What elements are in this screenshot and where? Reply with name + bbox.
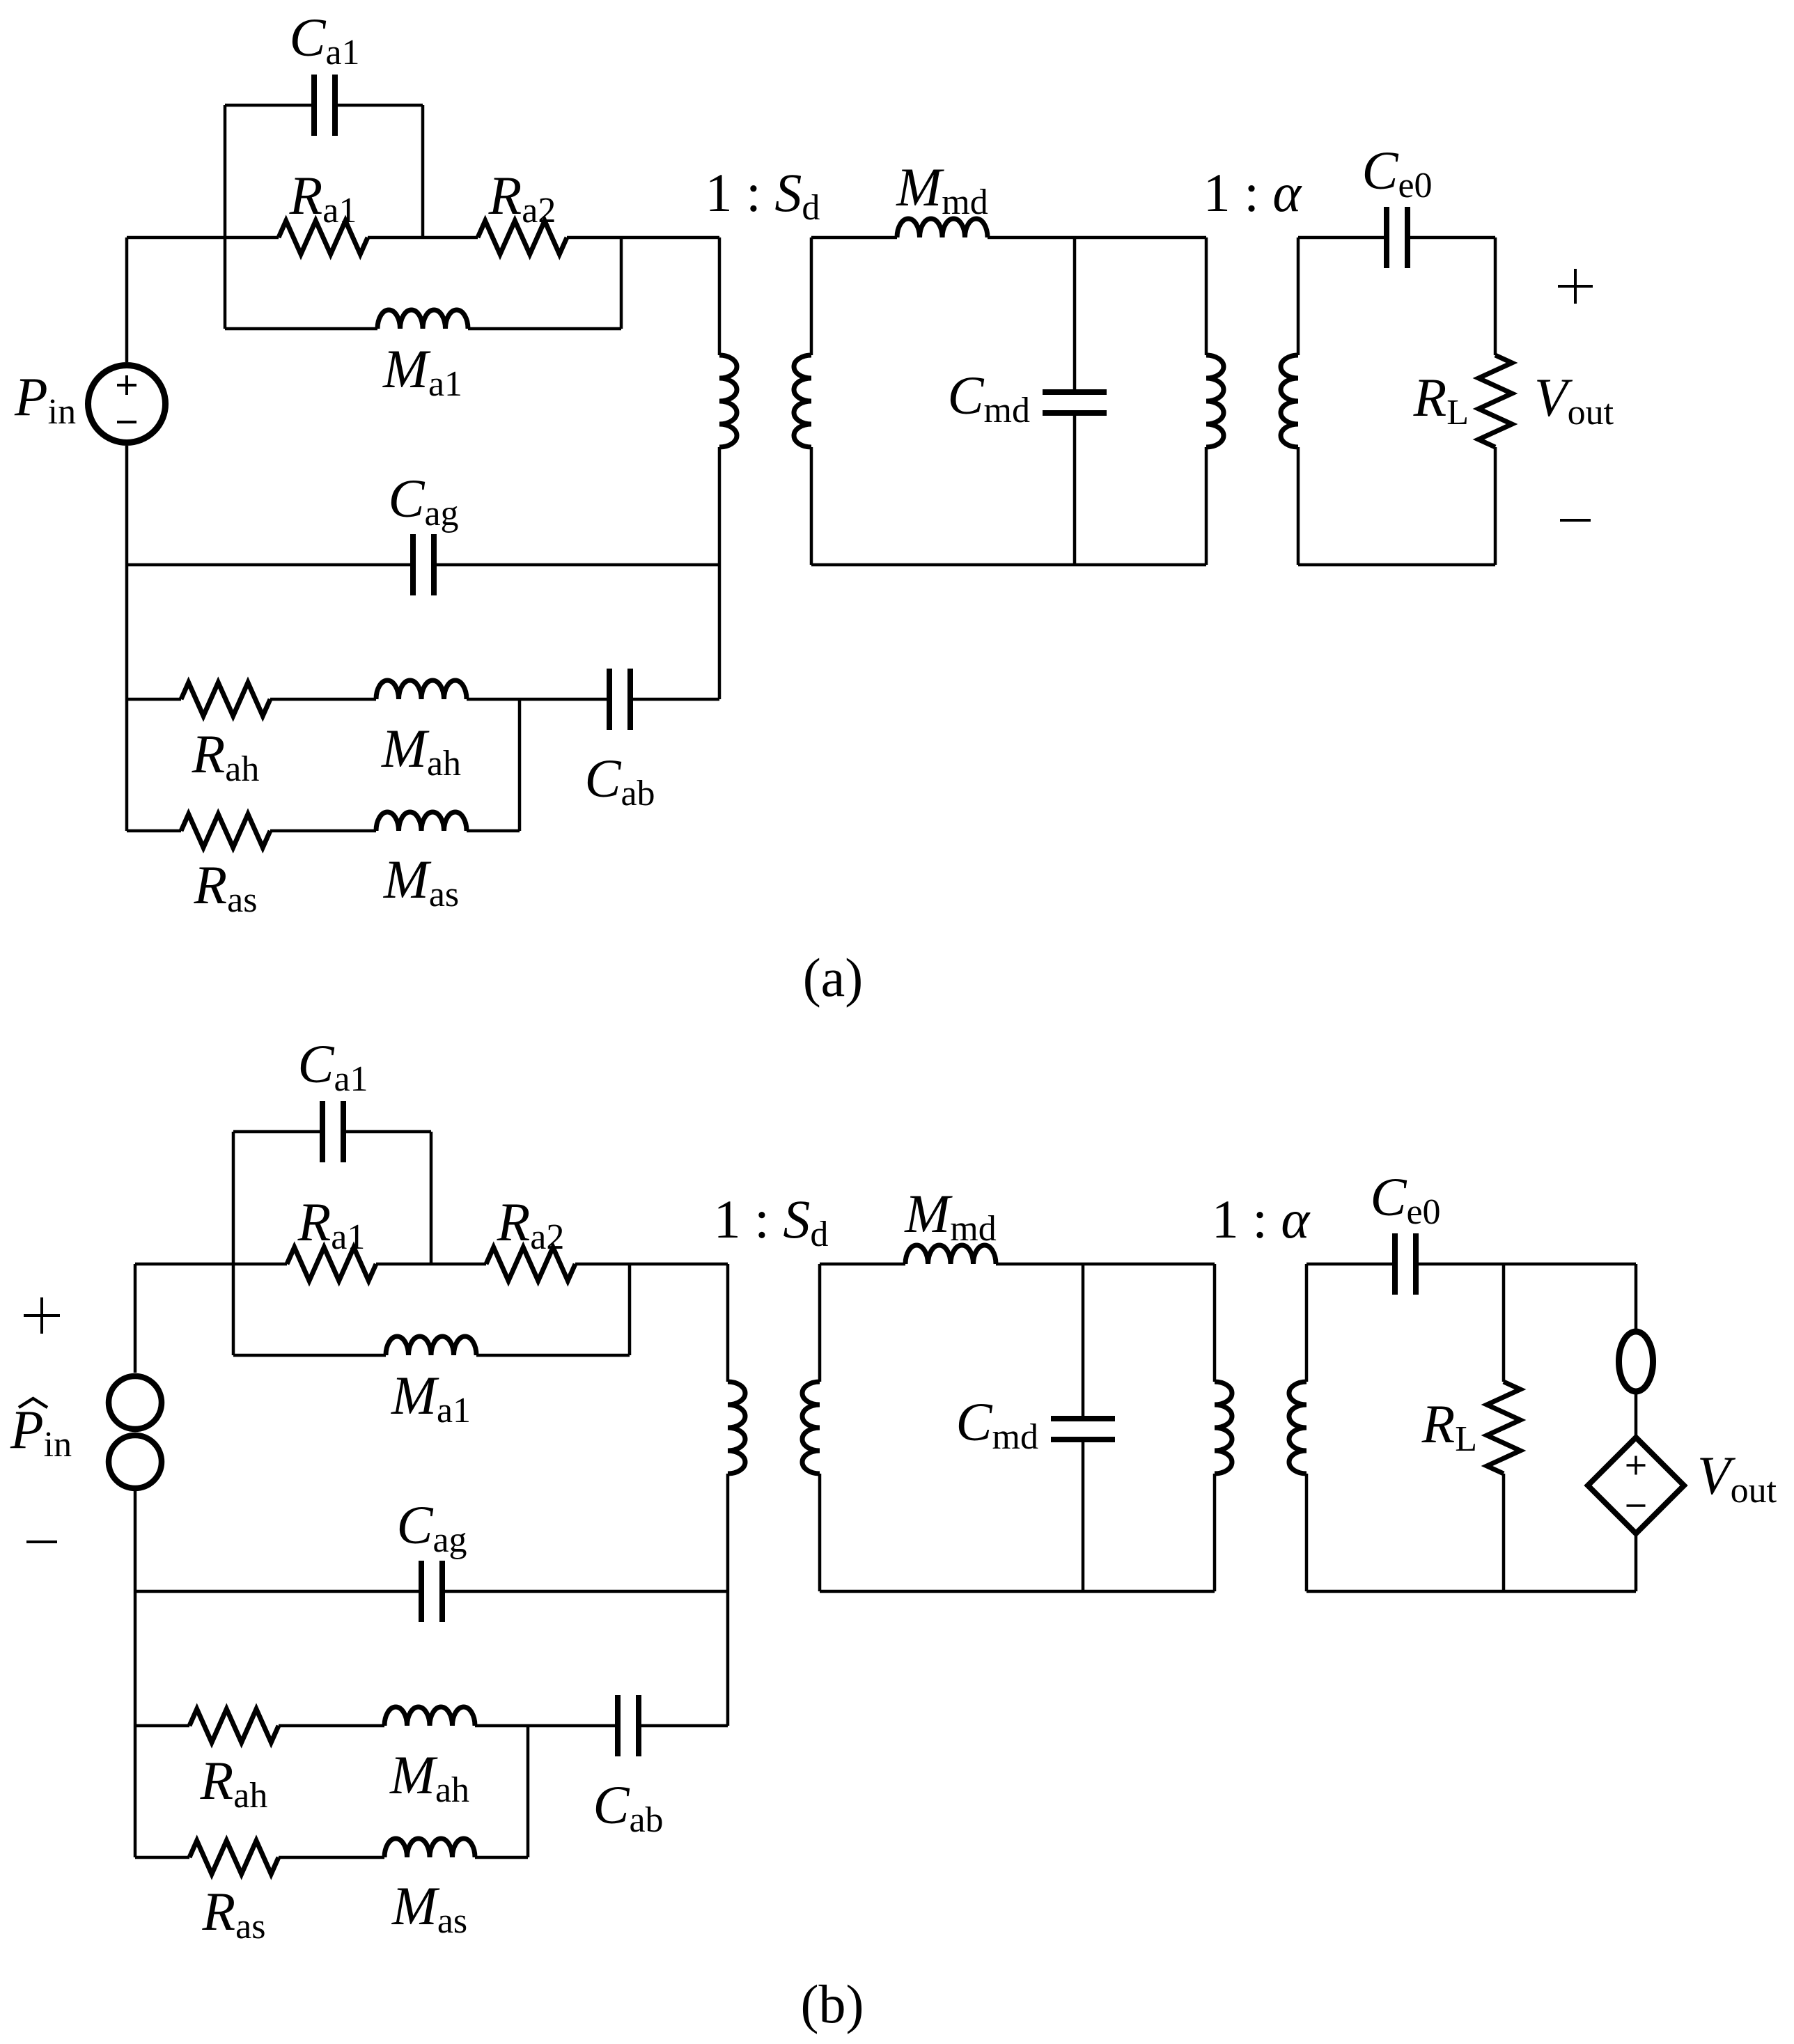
- wire: right box top right segment (b): [1416, 1263, 1636, 1266]
- svg-text:1 : α: 1 : α: [1212, 1189, 1311, 1249]
- wire: T2 primary vertical lower: [1205, 447, 1208, 565]
- wire: R_L upper lead (b): [1502, 1264, 1506, 1382]
- wire: between R_as and M_as (b): [279, 1856, 384, 1859]
- wire: junction vertical between branches: [518, 699, 522, 831]
- wire: R_a2 to transformer T1 primary (b): [575, 1263, 728, 1266]
- wire: R_as branch left segment (b): [135, 1856, 189, 1859]
- wire: R_L lower lead: [1494, 447, 1497, 565]
- wire: R_L lower lead (b): [1502, 1474, 1506, 1591]
- wire: T2 secondary vertical lower (b): [1305, 1474, 1309, 1591]
- wire: C_md upper vertical: [1073, 237, 1077, 392]
- wire: T1 primary vertical lower (b): [726, 1474, 730, 1726]
- wire: output branch upper lead (b): [1635, 1264, 1638, 1332]
- transformer T1 secondary coil (b): [802, 1382, 820, 1474]
- transformer T2 primary coil: [1206, 355, 1224, 447]
- wire: source top lead (b): [134, 1264, 137, 1373]
- capacitor C_ag (b): [419, 1561, 424, 1622]
- wire: T1 primary vertical lower: [718, 447, 721, 699]
- wire: C_md lower vertical (b): [1082, 1440, 1085, 1591]
- wire: C_a1/M_a1 branch left vertical (b): [232, 1132, 235, 1355]
- resistor R_a1: [279, 221, 368, 254]
- voltage source minus sign: [117, 421, 136, 423]
- transformer T2 secondary coil (b): [1289, 1382, 1306, 1474]
- inductor M_md (b): [905, 1245, 996, 1264]
- output minus sign: [1560, 519, 1591, 522]
- wire: between R_a1 and R_a2 (b): [376, 1263, 486, 1266]
- resistor R_as: [181, 814, 270, 848]
- wire: between R_ah and M_ah (b): [279, 1724, 384, 1728]
- wire: R_ah branch left segment: [127, 698, 181, 701]
- inductor M_as: [376, 812, 467, 831]
- wire: C_md lower vertical: [1073, 413, 1077, 565]
- wire: M_a1 branch left segment (b): [233, 1354, 386, 1357]
- wire: R_L upper lead: [1494, 237, 1497, 355]
- source P_in hat accent: [19, 1398, 47, 1407]
- inductor M_md: [897, 219, 988, 237]
- wire: figure (a) input top wire left segment: [127, 236, 279, 240]
- wire: between R_as and M_as: [270, 829, 376, 833]
- resistor R_L: [1479, 355, 1512, 447]
- capacitor C_md: [1043, 389, 1107, 395]
- wire: C_a1/M_a1 branch left vertical: [224, 105, 227, 329]
- input plus sign (b): [24, 1314, 60, 1317]
- wire: between R_ah and M_ah: [270, 698, 376, 701]
- inductor M_a1 (b): [386, 1336, 476, 1355]
- wire: T1 primary vertical upper: [718, 237, 721, 355]
- wire: M_a1 branch right segment: [468, 327, 621, 331]
- capacitor C_ag: [410, 534, 416, 595]
- wire: right box top left segment (b): [1306, 1263, 1395, 1266]
- dependent source V_out diamond: [1588, 1437, 1684, 1534]
- resistor R_a2 (b): [486, 1247, 575, 1281]
- capacitor C_a1: [311, 75, 317, 136]
- wire: C_a1 branch right vertical (b): [430, 1132, 433, 1264]
- wire: R_ah branch left segment (b): [135, 1724, 189, 1728]
- current source P_in lower circle: [109, 1435, 162, 1488]
- wire: C_ag branch left segment (b): [135, 1590, 421, 1593]
- wire: between R_a1 and R_a2: [368, 236, 478, 240]
- transformer T1 secondary coil: [794, 355, 811, 447]
- wire: T2 primary vertical lower (b): [1213, 1474, 1217, 1591]
- svg-text:(b): (b): [801, 1974, 864, 2034]
- wire: middle box bottom: [811, 563, 1206, 567]
- wire: C_a1 branch top left segment (b): [233, 1130, 322, 1134]
- wire: M_ah to C_ab (b): [475, 1724, 618, 1728]
- transformer T2 secondary coil: [1281, 355, 1298, 447]
- wire: M_a1 branch right vertical: [620, 237, 623, 329]
- wire: C_a1 branch right vertical: [421, 105, 425, 237]
- wire: ellipse to diamond (b): [1635, 1391, 1638, 1437]
- wire: M_ah to C_ab: [467, 698, 609, 701]
- wire: C_a1 branch top left segment: [225, 104, 314, 107]
- voltage source plus sign: [117, 384, 136, 387]
- wire: middle box top right segment: [988, 236, 1206, 240]
- svg-text:(a): (a): [803, 947, 864, 1008]
- wire: M_a1 branch left segment: [225, 327, 377, 331]
- transformer T1 primary coil: [719, 355, 737, 447]
- wire: right box top right segment: [1407, 236, 1495, 240]
- wire: junction vertical between branches (b): [526, 1726, 530, 1857]
- wire: M_a1 branch right vertical (b): [628, 1264, 632, 1355]
- resistor R_as (b): [189, 1841, 279, 1874]
- wire: middle box top right segment (b): [996, 1263, 1215, 1266]
- wire: M_as to junction (b): [475, 1856, 528, 1859]
- inductor M_ah (b): [384, 1707, 475, 1726]
- inductor M_ah: [376, 680, 467, 699]
- resistor R_ah (b): [189, 1709, 279, 1742]
- wire: T1 secondary vertical upper (b): [818, 1264, 822, 1382]
- inductor M_a1: [377, 310, 468, 329]
- wire: C_md upper vertical (b): [1082, 1264, 1085, 1419]
- transformer T2 primary coil (b): [1215, 1382, 1232, 1474]
- svg-text:1 : α: 1 : α: [1203, 162, 1303, 223]
- dependent source minus sign: [1627, 1504, 1646, 1507]
- wire: T2 primary vertical upper: [1205, 237, 1208, 355]
- wire: C_a1 branch top right segment (b): [343, 1130, 431, 1134]
- output sensing ellipse: [1619, 1332, 1653, 1391]
- resistor R_a2: [478, 221, 567, 254]
- resistor R_L (b): [1487, 1382, 1520, 1474]
- wire: T2 secondary vertical upper: [1297, 237, 1300, 355]
- wire: R_as branch left segment: [127, 829, 181, 833]
- capacitor C_ab: [607, 669, 612, 730]
- wire: R_a2 to transformer T1 primary: [567, 236, 719, 240]
- voltage source P_in: [88, 366, 166, 443]
- wire: T1 primary vertical upper (b): [726, 1264, 730, 1382]
- current source P_in upper circle: [109, 1376, 162, 1429]
- wire: middle box top left segment (b): [820, 1263, 905, 1266]
- wire: M_as to junction: [467, 829, 520, 833]
- wire: diamond bottom lead (b): [1635, 1534, 1638, 1591]
- wire: C_a1 branch top right segment: [335, 104, 423, 107]
- wire: middle box top left segment: [811, 236, 897, 240]
- capacitor C_e0: [1384, 207, 1389, 268]
- wire: source top lead: [125, 237, 129, 362]
- wire: source bottom lead / left rail: [125, 446, 129, 831]
- wire: T2 secondary vertical lower: [1297, 447, 1300, 565]
- capacitor C_e0 (b): [1392, 1233, 1398, 1295]
- wire: T2 primary vertical upper (b): [1213, 1264, 1217, 1382]
- wire: middle box bottom (b): [820, 1590, 1215, 1593]
- wire: right box bottom (b): [1306, 1590, 1636, 1593]
- wire: source bottom lead / left rail (b): [134, 1488, 137, 1857]
- wire: T1 secondary vertical lower (b): [818, 1474, 822, 1591]
- resistor R_a1 (b): [287, 1247, 376, 1281]
- wire: T2 secondary vertical upper (b): [1305, 1264, 1309, 1382]
- wire: T1 secondary vertical upper: [810, 237, 813, 355]
- dependent source plus sign: [1627, 1464, 1646, 1467]
- wire: C_ag branch right segment: [434, 563, 719, 567]
- wire: C_ab to transformer rail (b): [639, 1724, 728, 1728]
- wire: right box bottom: [1298, 563, 1495, 567]
- output plus sign: [1558, 285, 1593, 288]
- transformer T1 primary coil (b): [728, 1382, 745, 1474]
- capacitor C_ab (b): [615, 1695, 621, 1756]
- resistor R_ah: [181, 682, 270, 716]
- wire: T1 secondary vertical lower: [810, 447, 813, 565]
- wire: figure (b) input top wire left segment: [135, 1263, 287, 1266]
- wire: C_ag branch left segment: [127, 563, 413, 567]
- inductor M_as (b): [384, 1839, 475, 1857]
- wire: M_a1 branch right segment (b): [476, 1354, 630, 1357]
- input minus sign (b): [26, 1540, 57, 1543]
- wire: C_ab to transformer rail: [630, 698, 719, 701]
- capacitor C_md (b): [1051, 1416, 1115, 1421]
- wire: right box top left segment: [1298, 236, 1387, 240]
- wire: C_ag branch right segment (b): [442, 1590, 728, 1593]
- capacitor C_a1 (b): [320, 1101, 325, 1162]
